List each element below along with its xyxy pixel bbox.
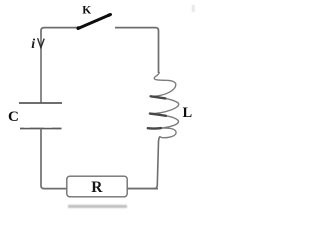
svg-text:K: K (82, 4, 91, 16)
inductor L coil dark cusp bars (151, 96, 166, 98)
svg-text:R: R (91, 179, 103, 196)
wire right vertical below coil to bottom-right corner (128, 136, 160, 188)
wire bottom-right segment from resistor to right corner (128, 188, 159, 190)
scan speck top-right (192, 5, 195, 12)
wire left vertical from capacitor bottom plate to bottom-left corner (41, 129, 67, 189)
inductor L coil (148, 72, 179, 138)
svg-text:i: i (31, 37, 35, 52)
wire top-right segment from switch to corner (115, 28, 159, 73)
capacitor C bottom plate (20, 128, 62, 130)
current arrow i (arrowhead on left wire) (38, 38, 45, 47)
svg-text:C: C (8, 109, 19, 125)
switch K blade (78, 15, 111, 29)
resistor R box (67, 176, 127, 197)
capacitor C top plate (19, 102, 62, 104)
shadow smudge under resistor (68, 205, 127, 208)
wire top-left segment from corner to switch (41, 28, 78, 38)
wire left vertical from arrow to capacitor top plate (40, 38, 42, 103)
svg-text:L: L (183, 105, 193, 121)
